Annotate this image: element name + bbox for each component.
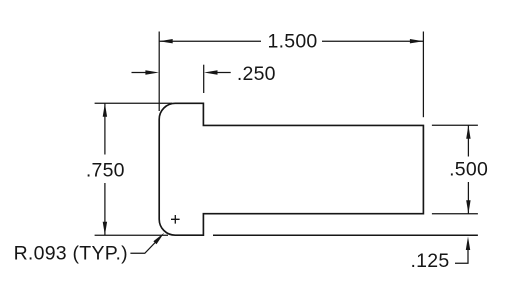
- svg-text:.125: .125: [411, 250, 450, 272]
- dimension line 1.500: [159, 40, 423, 42]
- svg-text:.250: .250: [237, 63, 276, 85]
- extension line .750 bottom: [95, 234, 168, 236]
- extension line right: [422, 32, 424, 118]
- extension line left: [158, 32, 160, 112]
- extension line .500 top: [432, 124, 478, 126]
- extension line .500 bottom: [432, 213, 478, 215]
- dimension .250 leaders: [132, 72, 231, 74]
- svg-text:.750: .750: [86, 159, 125, 181]
- svg-text:R.093 (TYP.): R.093 (TYP.): [14, 243, 128, 265]
- dimension .125 leader: [466, 237, 470, 251]
- svg-text:.500: .500: [449, 159, 488, 181]
- dimension line .750: [104, 103, 106, 235]
- part outline: [159, 103, 423, 235]
- extension line .250: [203, 65, 205, 93]
- fillet center mark: [171, 215, 180, 224]
- extension line .125 bottom: [213, 234, 478, 236]
- svg-text:1.500: 1.500: [267, 31, 317, 53]
- leader R.093: [130, 238, 159, 253]
- extension line .750 top: [95, 102, 172, 104]
- dimension line .500: [467, 125, 469, 213]
